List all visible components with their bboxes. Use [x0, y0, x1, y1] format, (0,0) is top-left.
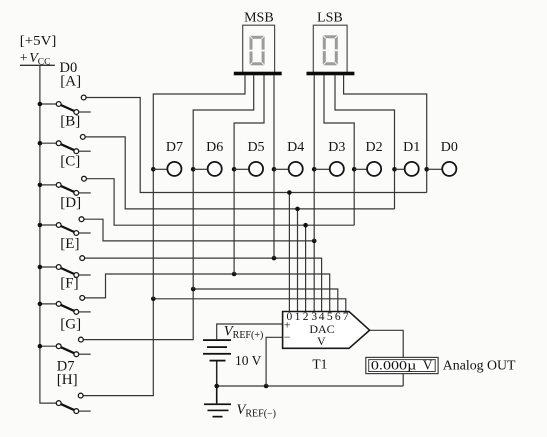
- svg-text:D0: D0: [441, 140, 458, 155]
- svg-text:D4: D4: [287, 140, 304, 155]
- switch G (SPDT key): [56, 337, 83, 356]
- wire rail to switch G: [40, 345, 56, 347]
- svg-text:2: 2: [303, 311, 309, 323]
- node D0 tap junction: [424, 167, 429, 172]
- svg-text:V: V: [423, 358, 433, 373]
- voltmeter Analog OUT body: [366, 357, 438, 373]
- probe lamp D0: [442, 162, 456, 176]
- svg-text:D2: D2: [366, 140, 383, 155]
- svg-text:[F]: [F]: [60, 276, 78, 292]
- svg-text:7: 7: [343, 311, 349, 323]
- node rail junction D: [38, 223, 43, 228]
- switch D (SPDT key): [56, 217, 84, 236]
- wire D7 column from display: [153, 75, 245, 299]
- wire stub switch A lower throw: [79, 111, 91, 113]
- svg-text:D7: D7: [166, 140, 183, 155]
- wire DAC pin 1 drop: [297, 209, 299, 312]
- svg-text:VREF(−): VREF(−): [237, 402, 277, 420]
- node bus D7 / column junction: [151, 297, 156, 302]
- wire battery negative lead: [216, 361, 218, 386]
- svg-text:[B]: [B]: [60, 113, 80, 129]
- probe lamp D4: [289, 162, 303, 176]
- wire D6 tap to probe: [193, 168, 208, 170]
- svg-text:VREF(+): VREF(+): [224, 324, 263, 342]
- display U2 MSB pin bar: [234, 72, 282, 76]
- probe lamp D3: [330, 162, 344, 176]
- svg-text:−: −: [284, 330, 291, 344]
- ground: [204, 386, 231, 418]
- svg-text:[E]: [E]: [60, 236, 79, 252]
- wire net D1 from switch B: [85, 137, 394, 209]
- wire rail to switch D: [40, 224, 56, 226]
- wire bottom bus to meter: [217, 385, 404, 387]
- wire net D5 from switch F: [85, 274, 330, 312]
- svg-text:10 V: 10 V: [235, 353, 262, 368]
- node D5 tap junction: [232, 167, 237, 172]
- probe lamp D1: [405, 162, 419, 176]
- node rail junction B: [38, 141, 43, 146]
- DAC U1 pin numbers 0-7: [287, 311, 349, 323]
- wire stub switch D lower throw: [79, 232, 91, 234]
- display U3 LSB digit 0: [323, 35, 338, 65]
- wire D3 column from display: [313, 75, 315, 241]
- svg-text:T1: T1: [312, 356, 327, 371]
- svg-text:D3: D3: [328, 140, 345, 155]
- wire D5 tap to probe: [234, 168, 249, 170]
- wire stub switch E lower throw: [79, 274, 91, 276]
- wire VREF(-) to DAC: [266, 337, 283, 386]
- svg-text:D1: D1: [403, 140, 420, 155]
- switch B (SPDT key): [56, 135, 85, 154]
- node VREF(-) junction: [264, 384, 269, 389]
- wire DAC pin 2 drop: [305, 225, 307, 311]
- node rail junction G: [38, 344, 43, 349]
- switch E (SPDT key): [56, 256, 84, 278]
- wire DAC pin 3 drop: [313, 241, 315, 312]
- svg-text:Analog OUT: Analog OUT: [443, 358, 516, 373]
- wire D7 tap to probe: [153, 168, 167, 170]
- node bus D0 / pin 0 junction: [287, 190, 292, 195]
- svg-text:MSB: MSB: [244, 11, 274, 26]
- wire VCC rail: [40, 65, 56, 403]
- wire stub switch H lower throw: [79, 410, 91, 412]
- wire net D3 from switch D: [84, 219, 314, 241]
- probe lamp D7: [167, 162, 181, 176]
- wire rail to switch A: [40, 103, 56, 105]
- svg-text:[D]: [D]: [60, 195, 81, 211]
- DAC U1 body: [283, 312, 370, 349]
- node bus D3 / pin 3 junction: [312, 239, 317, 244]
- node bus D2 / pin 2 junction: [303, 223, 308, 228]
- VCC net underline: [20, 64, 55, 66]
- svg-text:0.000µ: 0.000µ: [371, 357, 417, 372]
- node bus D5 / column junction: [232, 272, 237, 277]
- wire DAC output: [370, 330, 404, 386]
- svg-text:V: V: [317, 334, 326, 348]
- wire D4 tap to probe: [274, 168, 289, 170]
- node rail junction C: [38, 183, 43, 188]
- node D4 tap junction: [272, 167, 277, 172]
- node bus D4 / column junction: [272, 256, 277, 261]
- node bus D1 / pin 1 junction: [295, 207, 300, 212]
- node bus D6 / column junction: [191, 287, 196, 292]
- switch H (SPDT key): [56, 393, 83, 413]
- node D6 tap junction: [191, 167, 196, 172]
- battery 10V: [203, 339, 231, 361]
- node D1 tap junction: [392, 167, 397, 172]
- wire stub switch F lower throw: [79, 311, 91, 313]
- wire VREF(+) to DAC: [217, 324, 283, 339]
- wire rail to switch B: [40, 142, 56, 144]
- wire net D0 from switch A: [86, 98, 427, 193]
- wire D3 tap to probe: [314, 168, 330, 170]
- wire D2 column from display: [324, 75, 354, 225]
- display U3 LSB body: [313, 25, 347, 72]
- wire rail to switch C: [40, 184, 56, 186]
- svg-text:D5: D5: [247, 140, 264, 155]
- node rail junction A: [38, 102, 43, 107]
- node rail junction F: [38, 302, 43, 307]
- switch A (SPDT key): [56, 95, 86, 114]
- svg-text:LSB: LSB: [317, 11, 343, 26]
- svg-text:[+5V]: [+5V]: [20, 33, 57, 48]
- svg-text:6: 6: [335, 311, 341, 323]
- svg-text:[A]: [A]: [60, 74, 81, 90]
- node rail junction E: [38, 265, 43, 270]
- svg-text:[C]: [C]: [60, 154, 80, 170]
- wire stub switch B lower throw: [79, 150, 91, 152]
- node D3 tap junction: [312, 167, 317, 172]
- wire D1 column from display: [335, 75, 395, 209]
- svg-text:5: 5: [327, 311, 333, 323]
- display U2 MSB digit 0: [250, 36, 265, 66]
- node D2 tap junction: [352, 167, 357, 172]
- wire D1 tap to probe: [395, 168, 405, 170]
- wire D4 column from display: [273, 75, 275, 258]
- probe lamp D5: [249, 162, 263, 176]
- probe lamp D2: [367, 162, 381, 176]
- wire stub switch G lower throw: [79, 353, 91, 355]
- wire D6 column from display: [193, 75, 254, 289]
- wire rail to switch F: [40, 303, 56, 305]
- node battery/ground junction: [214, 384, 219, 389]
- wire D5 column from display: [234, 75, 264, 274]
- svg-text:3: 3: [311, 311, 317, 323]
- switch C (SPDT key): [56, 176, 86, 195]
- svg-text:[H]: [H]: [57, 372, 78, 388]
- probe lamp D6: [208, 162, 222, 176]
- wire D0 tap to probe: [427, 168, 443, 170]
- wire rail to switch E: [40, 266, 56, 268]
- svg-text:1: 1: [295, 311, 301, 323]
- svg-text:D6: D6: [206, 140, 223, 155]
- wire D0 column from display: [344, 75, 427, 192]
- display U2 MSB body: [243, 25, 275, 72]
- svg-text:4: 4: [319, 311, 325, 323]
- display U3 LSB pin bar: [307, 72, 355, 76]
- switch F (SPDT key): [56, 296, 84, 315]
- svg-text:[G]: [G]: [60, 317, 81, 333]
- wire net D4 from switch E: [85, 258, 322, 311]
- wire net D6 from switch G: [83, 289, 337, 340]
- wire stub switch C lower throw: [79, 192, 91, 194]
- wire net D2 from switch C: [86, 179, 354, 226]
- wire net D7 from switch H: [83, 299, 346, 396]
- node D7 tap junction: [151, 167, 156, 172]
- wire DAC pin 0 drop: [288, 193, 290, 312]
- wire D2 tap to probe: [354, 168, 367, 170]
